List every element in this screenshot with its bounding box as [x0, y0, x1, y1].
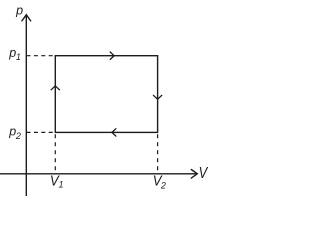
dashed line V1	[54, 134, 56, 173]
dashed line V2	[157, 134, 159, 173]
svg-text:2: 2	[160, 180, 166, 190]
y-axis arrowhead	[22, 15, 31, 21]
svg-text:1: 1	[16, 52, 21, 62]
arrow up on left edge	[51, 86, 59, 90]
dashed line p2	[27, 131, 55, 133]
svg-text:2: 2	[15, 131, 21, 141]
y-axis (p axis)	[25, 16, 27, 196]
arrow left on bottom edge	[112, 129, 116, 136]
svg-text:V: V	[199, 165, 209, 182]
arrow down on right edge	[153, 95, 161, 99]
x-axis arrowhead	[191, 170, 197, 179]
x-axis (V axis)	[0, 173, 196, 175]
svg-text:p: p	[15, 3, 23, 17]
dashed line p1	[27, 55, 55, 57]
cycle rectangle	[55, 56, 157, 133]
arrow right on top edge	[110, 52, 114, 59]
svg-text:1: 1	[59, 180, 64, 190]
